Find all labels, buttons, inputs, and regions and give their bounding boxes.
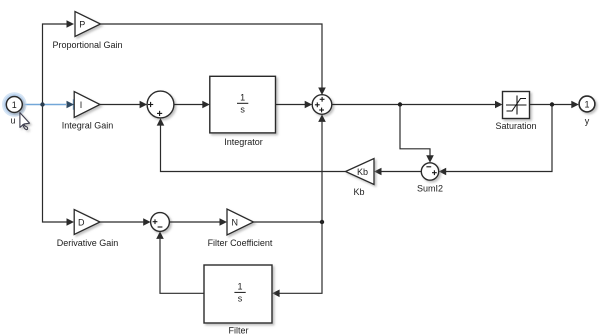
svg-text:Integrator: Integrator [224, 137, 263, 147]
wire: feedback node down to Filter input [272, 222, 322, 297]
wire: SumI2 to Kb [374, 168, 421, 176]
svg-text:1: 1 [12, 100, 17, 110]
wire: post-saturation node to SumI2 right [439, 105, 552, 176]
junction: input branch node [40, 102, 44, 106]
svg-text:1: 1 [240, 92, 245, 102]
sum SumI2 (- +) [421, 163, 438, 180]
wire: Integrator to Sum [276, 101, 313, 109]
sum Sum3 (derivative filter, + -) [151, 213, 170, 232]
svg-text:Integral Gain: Integral Gain [62, 121, 114, 131]
sum Sum (3-input + + +) [312, 95, 332, 115]
wire: u to Integral Gain (selected, blue) [23, 99, 75, 109]
saturation block [503, 92, 530, 119]
svg-text:y: y [585, 116, 590, 126]
svg-text:D: D [78, 217, 85, 227]
wire: N output to filter feedback node [254, 221, 323, 223]
wire: I output to Sum1 [100, 101, 147, 109]
wire: Sum to Saturation [332, 101, 503, 109]
wire: Sum3 to Filter Coefficient N [169, 218, 227, 226]
svg-text:u: u [10, 116, 15, 126]
svg-text:Proportional Gain: Proportional Gain [52, 40, 122, 50]
gain I (Integral Gain) [74, 92, 100, 118]
svg-text:1: 1 [237, 282, 242, 292]
svg-text:SumI2: SumI2 [417, 184, 443, 194]
gain N (Filter Coefficient) [227, 209, 254, 235]
junction: pre-saturation node [398, 102, 402, 106]
wire: D output to Sum3 [100, 218, 151, 226]
filter integrator block 1/s (Filter) [204, 265, 272, 323]
wire: Sum1 to Integrator [174, 101, 210, 109]
gain D (Derivative Gain) [74, 210, 100, 235]
gain Kb (back-calculation) [346, 159, 375, 185]
integrator block 1/s [210, 76, 276, 133]
svg-text:Filter Coefficient: Filter Coefficient [208, 238, 273, 248]
svg-text:N: N [232, 217, 239, 227]
svg-text:Kb: Kb [357, 167, 368, 177]
junction: filter feedback node [320, 220, 324, 224]
input port u (Inport 1, selected) [2, 92, 27, 117]
wire: branch node to Derivative Gain [43, 105, 75, 226]
svg-text:s: s [238, 294, 243, 304]
svg-text:P: P [79, 19, 85, 29]
svg-text:s: s [240, 105, 245, 115]
output port y (Outport 1) [579, 96, 595, 112]
svg-text:Kb: Kb [353, 187, 364, 197]
svg-text:Saturation: Saturation [495, 121, 536, 131]
sum Sum1 (integrator input, + +) [147, 91, 174, 118]
wire: P output to Sum top [101, 24, 326, 95]
svg-text:Derivative Gain: Derivative Gain [57, 238, 119, 248]
gain P (Proportional Gain) [75, 12, 101, 37]
junction: post-saturation node [550, 102, 554, 106]
wire: Saturation to output port y [530, 101, 579, 109]
mouse cursor [20, 113, 30, 130]
svg-text:I: I [80, 100, 83, 110]
wire: branch node to Proportional Gain [43, 20, 75, 104]
svg-text:Filter: Filter [229, 326, 249, 336]
wire: pre-saturation node to SumI2 top [400, 105, 434, 163]
svg-text:1: 1 [584, 99, 589, 109]
wire: Filter output to Sum3 bottom [156, 231, 204, 293]
wire: feedback node up to Sum bottom [318, 114, 326, 222]
wire: Kb to Sum1 bottom [157, 118, 346, 171]
